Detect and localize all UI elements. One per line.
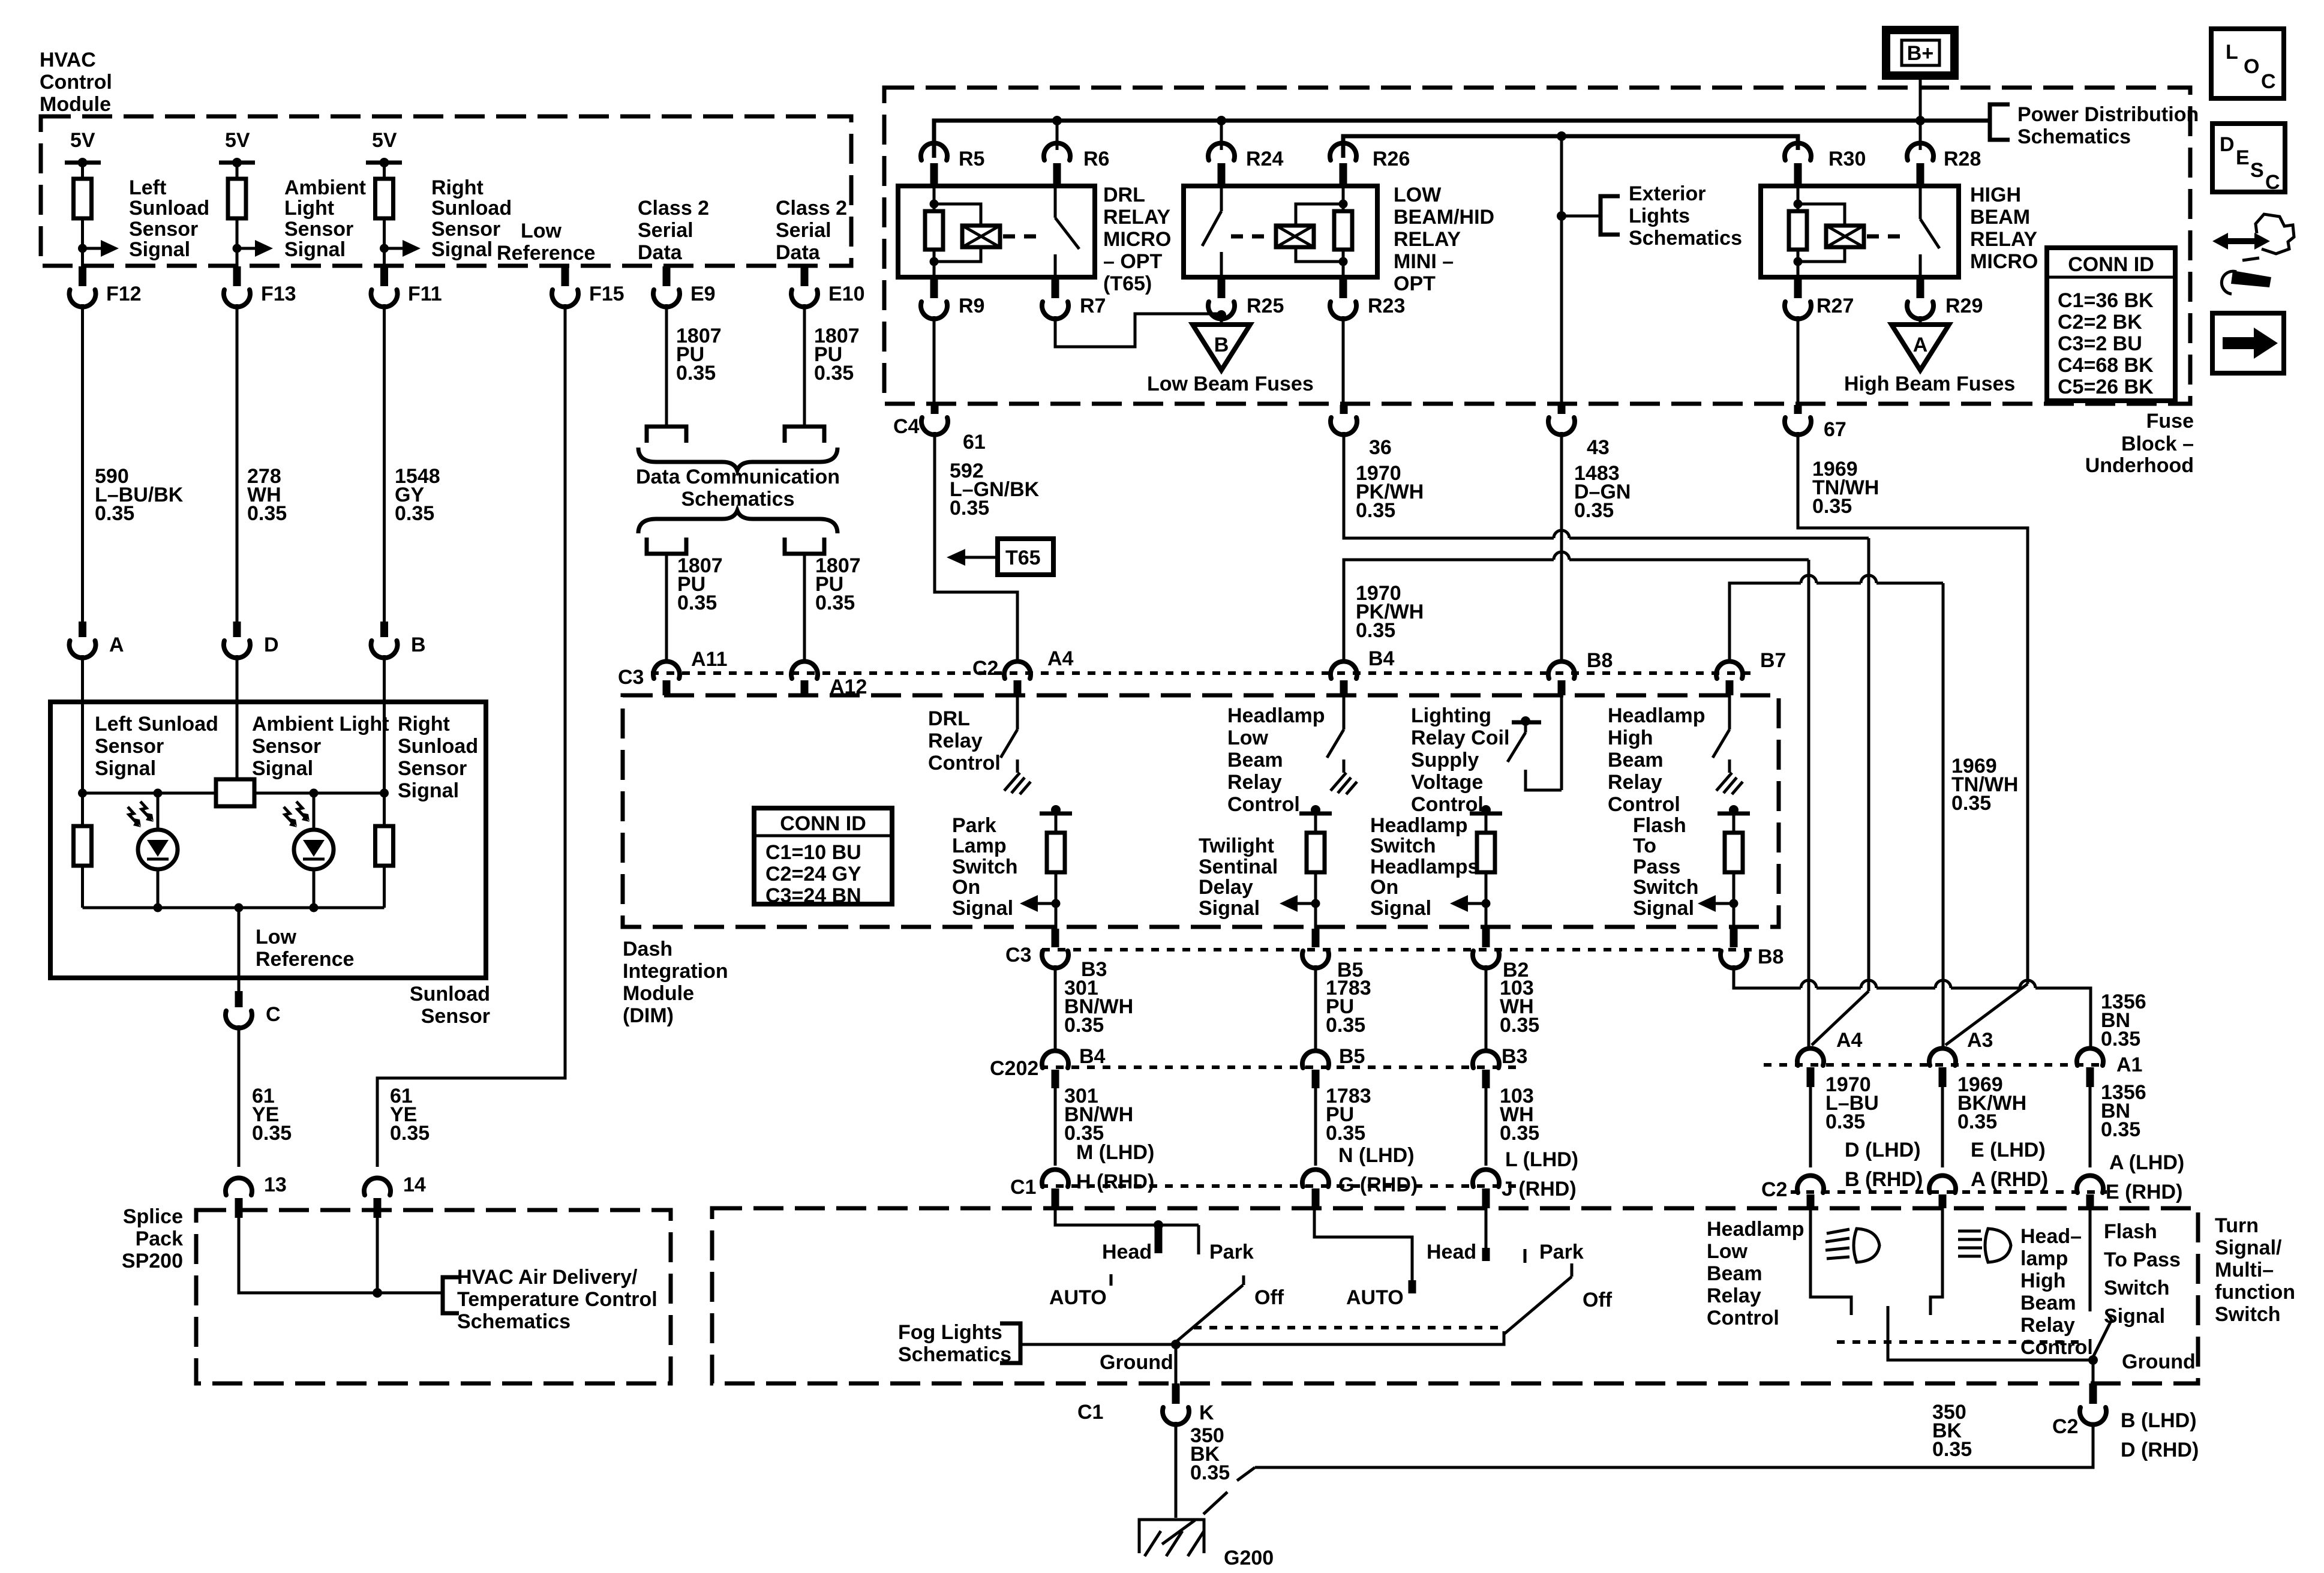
svg-text:Switch: Switch [952, 855, 1018, 878]
wire flash to pass contact [2089, 1208, 2092, 1311]
connector E10 [801, 266, 809, 286]
svg-text:Park: Park [952, 814, 996, 837]
wire 301 lower [1054, 1088, 1057, 1166]
wire to exterior bracket [1562, 215, 1601, 218]
connector A1 [2077, 1048, 2103, 1065]
connector B [380, 622, 388, 637]
svg-text:Head: Head [1102, 1241, 1152, 1263]
resistor left sunload [74, 179, 92, 218]
high beam relay resistor leg [1797, 186, 1800, 211]
svg-text:F11: F11 [408, 283, 442, 305]
wire 1807 E10 upper [803, 304, 806, 427]
svg-text:C3=2 BU: C3=2 BU [2058, 332, 2142, 355]
flash to pass source bar [1718, 812, 1750, 816]
connector E9 [663, 266, 671, 286]
svg-text:C1=36 BK: C1=36 BK [2058, 289, 2154, 312]
svg-text:SP200: SP200 [122, 1250, 183, 1272]
svg-text:Sensor: Sensor [431, 218, 500, 241]
connector R26 [1330, 143, 1356, 160]
node B+ junction [1915, 116, 1925, 125]
svg-text:Turn: Turn [2215, 1214, 2259, 1237]
ground high beam [1716, 760, 1743, 794]
low beam relay coil branch [1296, 204, 1343, 226]
svg-text:Fog Lights: Fog Lights [898, 1321, 1002, 1344]
svg-text:0.35: 0.35 [1932, 1438, 1972, 1461]
svg-text:O: O [2244, 55, 2259, 78]
DRL relay switch [1054, 186, 1057, 218]
connector C2 headlamp low [1797, 1175, 1824, 1193]
connector C2 flash [2077, 1175, 2103, 1193]
svg-text:LOW: LOW [1394, 184, 1442, 206]
svg-text:– OPT: – OPT [1103, 250, 1162, 273]
svg-text:Ground: Ground [1100, 1351, 1173, 1374]
svg-text:Module: Module [40, 93, 111, 116]
Sunload Sensor box [50, 702, 486, 978]
svg-text:Switch: Switch [2104, 1277, 2170, 1299]
svg-text:Reference: Reference [497, 242, 595, 265]
svg-text:High: High [1608, 727, 1653, 749]
svg-text:Sensor: Sensor [129, 218, 198, 241]
SEC7 [1707, 29, 2294, 1461]
svg-text:Module: Module [623, 982, 694, 1005]
svg-text:0.35: 0.35 [1326, 1122, 1365, 1145]
lamp return dotted [1837, 1340, 2085, 1344]
connector 13 [226, 1178, 252, 1195]
connector R27 [1794, 277, 1802, 298]
svg-text:B (RHD): B (RHD) [1845, 1168, 1923, 1191]
high beam headlamp symbol [1985, 1229, 2011, 1262]
svg-text:Head–: Head– [2020, 1225, 2082, 1248]
node low beam fuses [1217, 310, 1226, 320]
HVAC air delivery bracket [443, 1277, 459, 1313]
svg-text:B: B [411, 634, 426, 656]
svg-text:C2: C2 [1761, 1178, 1787, 1201]
SEC3 [618, 197, 1758, 698]
ground G200 [1139, 1520, 1204, 1553]
svg-text:0.35: 0.35 [1812, 495, 1852, 518]
svg-text:0.35: 0.35 [1951, 792, 1991, 815]
svg-text:A: A [1913, 334, 1928, 356]
svg-text:0.35: 0.35 [814, 362, 854, 385]
svg-text:C4=68 BK: C4=68 BK [2058, 354, 2154, 377]
connector A11 [653, 661, 680, 679]
svg-text:B4: B4 [1368, 647, 1395, 670]
svg-text:Power Distribution: Power Distribution [2017, 103, 2199, 126]
park lamp switch blade [1176, 1285, 1243, 1342]
high beam relay coil branch [1798, 204, 1845, 226]
DESC box [2212, 124, 2285, 192]
svg-text:0.35: 0.35 [815, 592, 855, 614]
low beam relay resistor leg [1342, 186, 1345, 211]
svg-text:Headlamps: Headlamps [1370, 855, 1479, 878]
svg-text:R9: R9 [959, 295, 984, 317]
SEC1 [898, 30, 2199, 405]
svg-text:RELAY: RELAY [1103, 206, 1170, 229]
twilight resistor [1307, 833, 1325, 872]
high beam coil dash link [1867, 235, 1909, 239]
CONN ID table DIM [754, 808, 892, 904]
svg-text:0.35: 0.35 [677, 592, 717, 614]
svg-text:R23: R23 [1368, 295, 1405, 317]
svg-text:F13: F13 [261, 283, 296, 305]
svg-text:Sunload: Sunload [431, 197, 512, 220]
svg-text:Schematics: Schematics [1629, 227, 1742, 250]
wire 1970 L-BU [1809, 1087, 1812, 1167]
sensor resistor horizontal [216, 779, 254, 806]
svg-text:Control: Control [2020, 1336, 2093, 1359]
C202 connector row dotted line [1040, 1065, 1518, 1069]
park contact tick [1197, 1225, 1200, 1254]
wire to C2 bottom [2092, 1360, 2095, 1385]
svg-text:Left: Left [129, 176, 166, 199]
photodiode left sunload [157, 793, 160, 830]
svg-text:R27: R27 [1816, 295, 1854, 317]
svg-text:0.35: 0.35 [2101, 1118, 2140, 1141]
svg-text:C3=24 BN: C3=24 BN [765, 884, 861, 907]
connector D [233, 622, 241, 637]
svg-text:Control: Control [1608, 793, 1680, 816]
svg-text:Signal: Signal [95, 757, 156, 780]
svg-text:Low: Low [256, 926, 297, 948]
arrow right sunload signal [385, 247, 404, 250]
svg-text:Control: Control [1227, 793, 1300, 816]
park lamp source bar [1040, 812, 1072, 816]
svg-text:A4: A4 [1836, 1029, 1863, 1052]
wire 1807 E9 lower [665, 554, 668, 660]
svg-text:Light: Light [284, 197, 334, 220]
svg-text:Block –: Block – [2121, 433, 2194, 455]
svg-text:R5: R5 [959, 148, 984, 170]
svg-text:Signal: Signal [431, 238, 493, 261]
lamp return wire [1888, 1306, 2093, 1360]
SEC5 [990, 755, 2184, 1208]
resistor ambient light [228, 179, 246, 218]
svg-text:C1: C1 [1077, 1401, 1103, 1424]
head contact tick [1155, 1225, 1163, 1253]
svg-text:B4: B4 [1079, 1045, 1106, 1068]
A connector row dotted line [1764, 1063, 2107, 1067]
svg-text:Headlamp: Headlamp [1707, 1218, 1804, 1241]
headlamps on resistor [1477, 833, 1495, 872]
svg-text:Relay: Relay [1227, 771, 1282, 794]
svg-text:14: 14 [403, 1173, 426, 1196]
wire 350 BK [1175, 1422, 1178, 1518]
svg-text:Flash: Flash [1633, 814, 1686, 837]
svg-text:Low: Low [1227, 727, 1269, 749]
svg-text:CONN ID: CONN ID [780, 812, 866, 835]
terminator E10 upper [785, 427, 824, 443]
svg-text:Lights: Lights [1629, 205, 1690, 227]
wire ground to C1 [1175, 1344, 1178, 1385]
svg-text:R25: R25 [1247, 295, 1284, 317]
node right sunload signal [380, 244, 389, 253]
photodiode arrows right [284, 807, 295, 825]
svg-text:T65: T65 [1005, 547, 1041, 569]
wire fuse 43 column [1560, 136, 1563, 405]
svg-text:Signal: Signal [952, 897, 1013, 920]
connector B8 flash to pass [1730, 929, 1738, 947]
svg-text:Head: Head [1427, 1241, 1476, 1263]
lighting relay coil contact elbow [1526, 770, 1562, 790]
svg-text:0.35: 0.35 [1500, 1014, 1539, 1037]
svg-text:M (LHD): M (LHD) [1076, 1141, 1154, 1164]
svg-text:Exterior: Exterior [1629, 182, 1706, 205]
connector B4 [1331, 661, 1357, 679]
wire headlamp auto feed [1314, 1208, 1412, 1290]
arrow twilight signal [1296, 902, 1316, 905]
svg-text:Control: Control [40, 71, 112, 94]
low beam headlamp symbol [1854, 1229, 1879, 1262]
fog lights bracket [1000, 1323, 1020, 1363]
T65 arrow [964, 556, 998, 559]
svg-text:Headlamp: Headlamp [1227, 704, 1325, 727]
wire 1356 [1734, 965, 1801, 988]
wire 1807 E9 upper [665, 304, 668, 427]
connector A12 [791, 661, 818, 679]
svg-text:Beam: Beam [2020, 1292, 2076, 1314]
svg-text:61: 61 [963, 431, 986, 454]
svg-text:Class 2: Class 2 [638, 197, 709, 220]
HVAC Control Module box [41, 116, 851, 266]
svg-text:C2=2 BK: C2=2 BK [2058, 311, 2142, 334]
svg-text:Signal: Signal [129, 238, 190, 261]
svg-text:A: A [109, 634, 124, 656]
svg-text:13: 13 [264, 1173, 287, 1196]
B+ box [1886, 30, 1954, 76]
svg-text:B8: B8 [1587, 649, 1613, 672]
connector R7 [1052, 277, 1059, 298]
lighting relay coil switch bar [1512, 721, 1541, 725]
node fuse43 tap [1557, 131, 1566, 141]
svg-text:Flash: Flash [2104, 1220, 2157, 1243]
svg-text:S: S [2250, 159, 2264, 182]
wire B+ to bus [1919, 76, 1922, 121]
svg-text:Multi–: Multi– [2215, 1259, 2274, 1281]
svg-text:Signal: Signal [284, 238, 346, 261]
lighting coil supply bus [1343, 136, 1798, 158]
connector B2 column [1485, 965, 1488, 1052]
svg-text:Switch: Switch [1370, 834, 1436, 857]
high beam relay switch [1919, 186, 1922, 219]
wire 1807 E10 lower [803, 554, 806, 660]
hop fuse36 row over B8 [1554, 530, 1569, 538]
svg-text:Sunload: Sunload [410, 983, 490, 1005]
ground bus [1020, 1331, 1504, 1344]
svg-text:E: E [2236, 146, 2250, 169]
arrow headlamps on signal [1467, 902, 1486, 905]
svg-text:OPT: OPT [1394, 272, 1436, 295]
SEC4 [754, 405, 2028, 1046]
svg-text:Control: Control [1707, 1307, 1779, 1329]
diagonal fuse67 to A3 [1945, 984, 2028, 1045]
C3 connector row dotted line [1042, 948, 1758, 951]
connector C [235, 991, 243, 1007]
svg-text:C3: C3 [1005, 944, 1031, 966]
svg-text:Signal/: Signal/ [2215, 1236, 2282, 1259]
splice wire 13 [239, 1218, 443, 1293]
svg-text:Lighting: Lighting [1411, 704, 1491, 727]
svg-text:0.35: 0.35 [247, 502, 287, 525]
connector fuse 43 [1558, 405, 1566, 414]
T65 box [998, 539, 1053, 575]
svg-text:67: 67 [1824, 418, 1846, 441]
svg-text:To Pass: To Pass [2104, 1248, 2181, 1271]
svg-text:R30: R30 [1828, 148, 1866, 170]
svg-text:MINI –: MINI – [1394, 250, 1454, 273]
svg-text:A1: A1 [2116, 1053, 2142, 1076]
svg-text:C202: C202 [990, 1057, 1038, 1080]
svg-text:Relay: Relay [928, 730, 983, 752]
hop 1356 over fuse67 wire [2020, 980, 2035, 988]
svg-text:0.35: 0.35 [1064, 1014, 1104, 1037]
svg-text:C2=24 GY: C2=24 GY [765, 863, 861, 885]
svg-text:D (RHD): D (RHD) [2121, 1439, 2199, 1461]
blade link dotted [1194, 1326, 1503, 1329]
wire 1483 B8 column [1560, 432, 1563, 660]
svg-text:Sunload: Sunload [398, 735, 478, 758]
connector fuse 36 [1340, 405, 1348, 414]
svg-text:R24: R24 [1246, 148, 1283, 170]
svg-text:DRL: DRL [1103, 184, 1145, 206]
node splice [373, 1288, 382, 1298]
connector R28 [1919, 121, 1922, 150]
connector B8 [1548, 661, 1575, 679]
connector R29 [1917, 277, 1924, 298]
svg-text:D: D [264, 634, 279, 656]
wire 350 BK right branch diagonal [1237, 1467, 1255, 1481]
C1 connector row dotted line [1040, 1184, 1518, 1188]
svg-text:Low: Low [1707, 1240, 1748, 1263]
auto contact tick [1110, 1274, 1113, 1286]
svg-text:Beam: Beam [1227, 749, 1283, 772]
node headlamps on signal [1482, 899, 1491, 908]
svg-text:Underhood: Underhood [2085, 454, 2194, 477]
wire 278 [236, 304, 239, 624]
svg-text:C2: C2 [2052, 1415, 2078, 1438]
flash to pass switch blade [2093, 1321, 2111, 1357]
wire 1969 BK/WH [1941, 1087, 1944, 1167]
svg-text:B: B [1214, 334, 1229, 356]
connector A4 [1797, 1048, 1824, 1065]
node park lamp signal [1052, 899, 1061, 908]
svg-text:A12: A12 [830, 676, 867, 698]
svg-text:0.35: 0.35 [1957, 1110, 1997, 1133]
svg-text:F15: F15 [589, 283, 624, 305]
wire 1970 fuse36 [1344, 432, 1554, 538]
svg-text:G200: G200 [1224, 1547, 1274, 1569]
ground low beam [1331, 760, 1357, 794]
node left sunload signal [78, 244, 87, 253]
svg-text:0.35: 0.35 [2101, 1028, 2140, 1050]
headlamp low beam relay control switch [1343, 695, 1346, 730]
svg-text:HVAC Air Delivery/: HVAC Air Delivery/ [457, 1266, 638, 1289]
connector C2 headlamp high [1929, 1175, 1956, 1193]
svg-text:Pack: Pack [136, 1227, 183, 1250]
svg-text:Delay: Delay [1199, 876, 1253, 899]
svg-text:Schematics: Schematics [2017, 125, 2131, 148]
svg-text:Signal: Signal [252, 757, 313, 780]
svg-text:Data Communication: Data Communication [636, 466, 840, 488]
svg-text:36: 36 [1369, 436, 1392, 459]
wire R27 to fuse block bottom [1797, 316, 1800, 405]
wrench icon [2212, 233, 2270, 250]
svg-text:CONN ID: CONN ID [2068, 253, 2154, 276]
node ambient light signal [233, 244, 242, 253]
svg-text:A3: A3 [1967, 1029, 1993, 1052]
DRL relay control switch [1016, 695, 1019, 730]
svg-text:B (LHD): B (LHD) [2121, 1409, 2197, 1432]
svg-text:E10: E10 [828, 283, 865, 305]
connector R6 [1056, 121, 1059, 150]
node flash to pass signal [1730, 899, 1739, 908]
arrow ambient light signal [237, 247, 256, 250]
svg-text:A (LHD): A (LHD) [2109, 1151, 2184, 1174]
hop 1356 over B7 wire [1935, 980, 1951, 988]
wire park lamp feed [1055, 1208, 1199, 1225]
svg-text:C: C [266, 1003, 281, 1026]
svg-text:Park: Park [1209, 1241, 1254, 1263]
svg-text:Headlamp: Headlamp [1608, 704, 1706, 727]
svg-text:Relay: Relay [1608, 771, 1662, 794]
connector C4 61 [931, 405, 939, 414]
SEC2 [50, 129, 657, 1333]
wire 301 upper [1054, 965, 1057, 1052]
wire low beam lamp [1810, 1208, 1851, 1315]
svg-text:D: D [2220, 133, 2235, 156]
low beam relay switch [1220, 186, 1223, 211]
svg-text:R29: R29 [1945, 295, 1983, 317]
svg-text:Splice: Splice [123, 1205, 183, 1228]
svg-text:Supply: Supply [1411, 749, 1479, 772]
wire 1970 to A4 [1807, 560, 1810, 1046]
connector C1 park lamp [1042, 1169, 1068, 1187]
svg-text:Signal: Signal [398, 779, 459, 802]
svg-text:Relay: Relay [1707, 1284, 1761, 1307]
svg-text:Control: Control [928, 752, 1001, 775]
CONN ID table fuse block [2047, 248, 2175, 401]
svg-text:BEAM/HID: BEAM/HID [1394, 206, 1494, 229]
connector R30 [1785, 143, 1811, 160]
svg-text:Temperature Control: Temperature Control [457, 1288, 657, 1311]
brace lower [638, 511, 837, 533]
svg-text:Sensor: Sensor [284, 218, 353, 241]
svg-text:HVAC: HVAC [40, 49, 96, 71]
svg-text:Lamp: Lamp [952, 834, 1007, 857]
terminator E10 lower [785, 538, 824, 554]
svg-text:0.35: 0.35 [1574, 499, 1614, 522]
node R24 tap [1217, 116, 1226, 125]
svg-text:MICRO: MICRO [1970, 250, 2038, 273]
svg-text:0.35: 0.35 [1356, 619, 1395, 642]
svg-text:Low Beam Fuses: Low Beam Fuses [1147, 373, 1314, 395]
svg-text:Sensor: Sensor [95, 735, 164, 758]
svg-text:function: function [2215, 1281, 2295, 1304]
left divider resistor [81, 793, 84, 826]
svg-text:Beam: Beam [1707, 1262, 1762, 1285]
SEC6 [898, 1208, 2093, 1569]
DIM top connector row dotted line [651, 671, 1758, 675]
svg-text:C: C [2261, 70, 2276, 93]
svg-text:0.35: 0.35 [950, 497, 989, 520]
svg-text:Headlamp: Headlamp [1370, 814, 1468, 837]
svg-text:Ambient Light: Ambient Light [252, 713, 389, 736]
svg-text:B3: B3 [1502, 1045, 1527, 1068]
svg-text:AUTO: AUTO [1346, 1286, 1404, 1309]
svg-text:Pass: Pass [1633, 855, 1680, 878]
svg-text:AUTO: AUTO [1049, 1286, 1107, 1309]
low beam coil dash link [1231, 235, 1273, 239]
main feed bus [934, 121, 1989, 158]
